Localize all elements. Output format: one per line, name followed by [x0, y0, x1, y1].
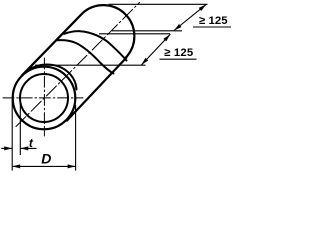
- extension line from far end apex: [109, 3, 208, 5]
- weld seam arc W1 near front face: [27, 65, 77, 90]
- arrowhead dim1 lower: [174, 24, 181, 31]
- svg-text:D: D: [41, 151, 51, 167]
- horizontal center line of front face: [3, 97, 83, 99]
- weld seam arc W3 lower (middle of pipe): [58, 40, 114, 73]
- D dimension line: [12, 165, 75, 167]
- axis center line (dash-dot along pipe axis): [16, 3, 140, 127]
- vertical center line of front face: [43, 58, 45, 136]
- arrowhead t right (pointing left): [20, 146, 28, 150]
- t arrow tail right: [20, 147, 36, 149]
- extension line 3 (from weld W2): [99, 33, 170, 35]
- t arrow tail left: [1, 147, 12, 149]
- extension line 4 (from weld W1 / tangent): [35, 64, 146, 66]
- arrowhead dim2 lower: [141, 58, 148, 65]
- t extension line left (outer wall): [11, 100, 13, 171]
- arrowhead t left (pointing right): [4, 146, 12, 150]
- arrowhead dim1 upper: [199, 4, 206, 11]
- arrowhead dim2 upper: [163, 34, 170, 41]
- dimension line 2 slanted: [141, 34, 170, 65]
- svg-text:≥ 125: ≥ 125: [199, 15, 228, 27]
- weld seam arc W2 upper (middle of pipe): [64, 31, 127, 60]
- D extension line right: [75, 105, 77, 171]
- outer circle of front face: [13, 67, 76, 130]
- far end cap arc: [82, 5, 134, 57]
- arrowhead D right: [68, 164, 76, 168]
- text shelf line 2: [160, 58, 197, 60]
- svg-text:≥ 125: ≥ 125: [164, 47, 193, 59]
- text shelf line 1: [193, 26, 231, 28]
- top tangent silhouette line of pipe body: [22, 13, 83, 75]
- dimension line 1 slanted: [174, 4, 206, 30]
- inner circle of front face (bore): [20, 74, 68, 122]
- bottom tangent silhouette line of pipe body: [67, 58, 127, 121]
- arrowhead D left: [12, 164, 20, 168]
- extension line 2 (upper middle): [112, 30, 182, 32]
- t extension line right (inner wall): [19, 100, 21, 155]
